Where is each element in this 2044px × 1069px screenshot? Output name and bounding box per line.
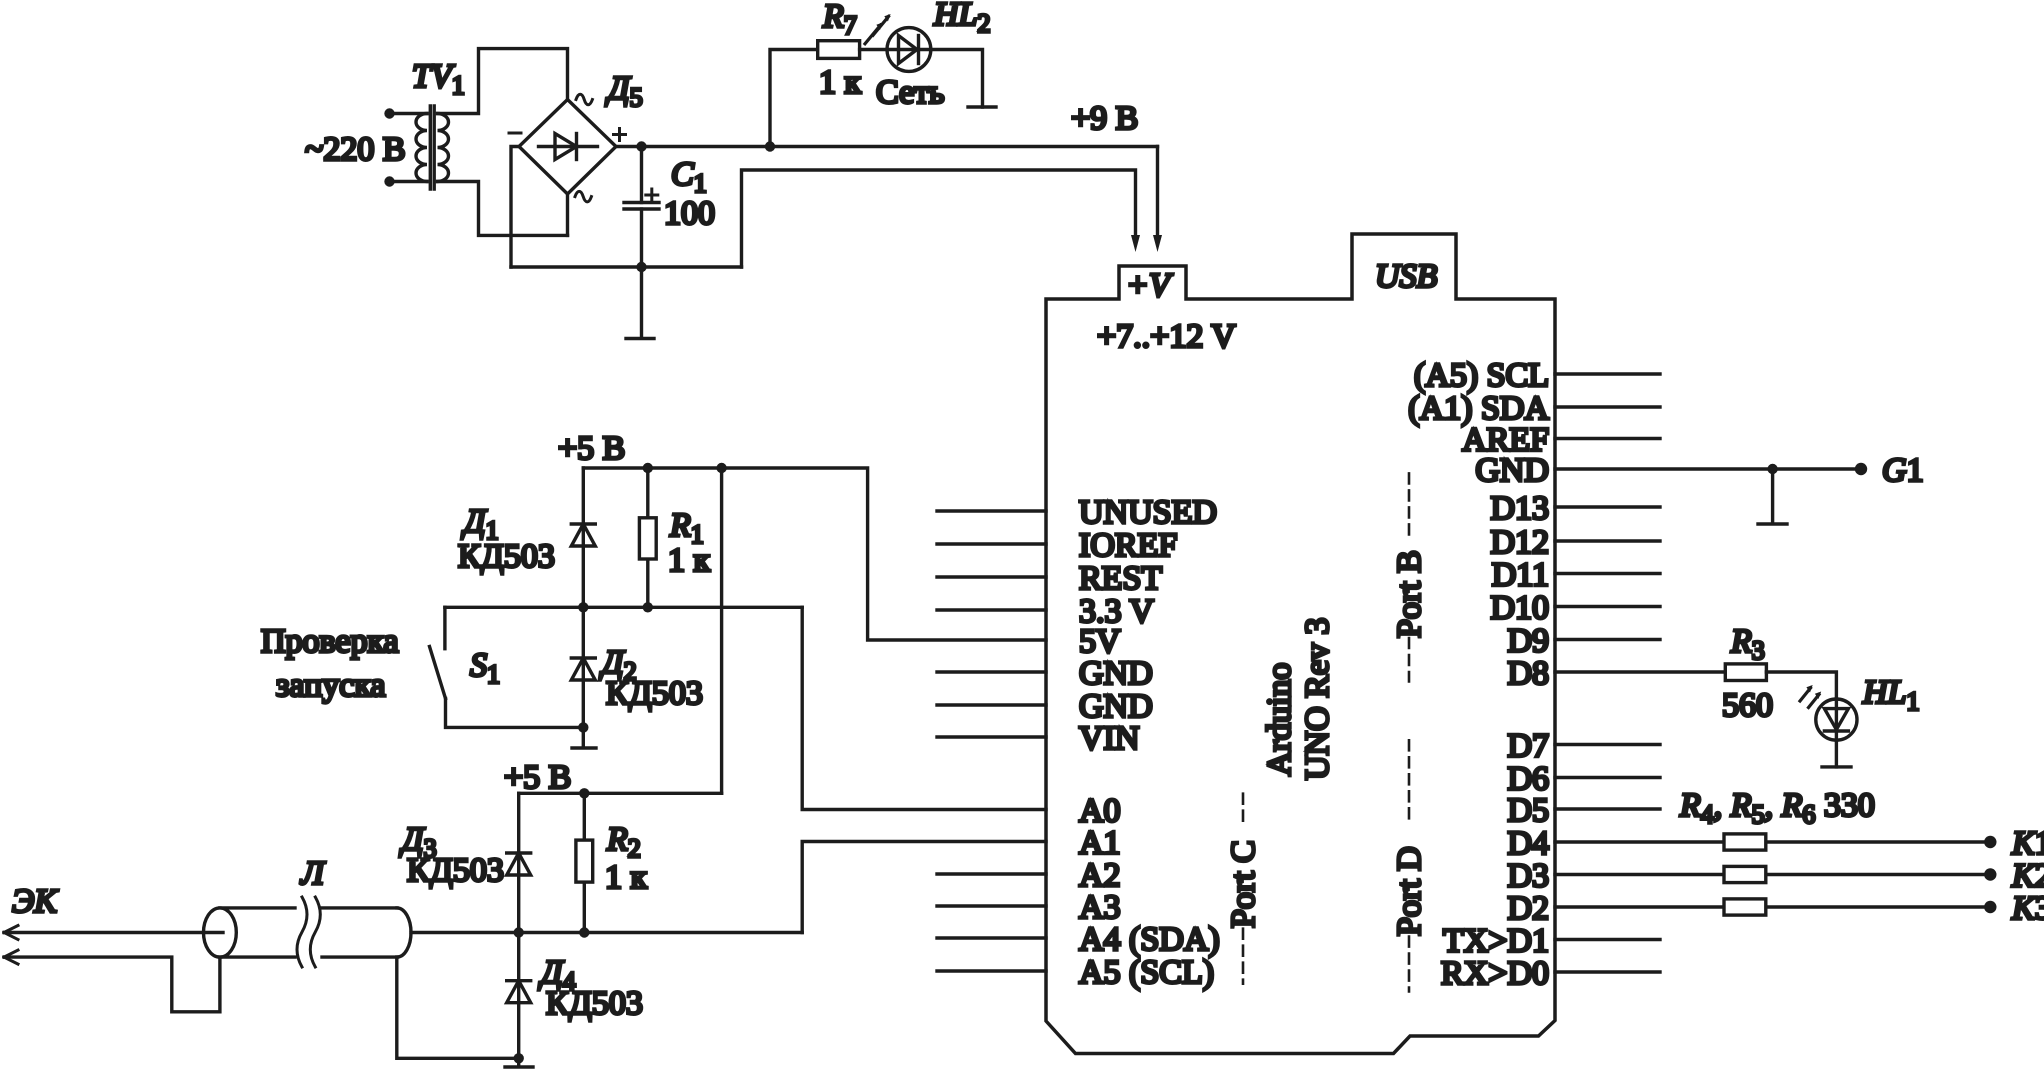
wire ЭК upper with arrow [4, 926, 223, 940]
wire line rail [411, 931, 802, 934]
svg-text:Сеть: Сеть [876, 74, 945, 111]
svg-text:D13: D13 [1490, 490, 1549, 527]
wire +9V drop arrow [1156, 147, 1159, 237]
svg-text:запуска: запуска [276, 667, 385, 704]
svg-text:Port D: Port D [1391, 846, 1428, 936]
svg-text:GND: GND [1475, 452, 1549, 489]
Port B dashed line and label [1391, 473, 1428, 681]
svg-text:UNO Rev 3: UNO Rev 3 [1299, 618, 1336, 780]
svg-text:REST: REST [1079, 560, 1162, 597]
wire riser to lower +5V rail [720, 468, 723, 793]
node R1 top [643, 463, 653, 473]
svg-text:+5 В: +5 В [504, 759, 571, 796]
node R2 top [579, 788, 589, 798]
wire D3 to K2 [1555, 873, 1984, 876]
svg-text:K3: K3 [2011, 890, 2044, 927]
wire ЭК lower with arrow [4, 950, 220, 1012]
LED HL2 [865, 14, 931, 71]
wire winding-bottom to bridge bottom [438, 182, 568, 236]
wire R3 to HL1 [1766, 672, 1836, 699]
node bridge output junction [636, 141, 646, 151]
svg-text:КД503: КД503 [606, 675, 703, 712]
svg-text:Arduino: Arduino [1261, 663, 1298, 776]
svg-text:Port B: Port B [1391, 550, 1428, 638]
svg-text:A1: A1 [1079, 825, 1121, 862]
diode Д1 [571, 468, 595, 607]
svg-text:КД503: КД503 [546, 985, 643, 1022]
node C1 bottom junction [636, 262, 646, 272]
wire rail to A0 [802, 607, 1046, 809]
svg-text:A5 (SCL): A5 (SCL) [1079, 954, 1214, 991]
ground [505, 1058, 533, 1067]
svg-text:IOREF: IOREF [1079, 527, 1177, 564]
svg-text:Проверка: Проверка [261, 623, 399, 660]
svg-text:D5: D5 [1507, 792, 1549, 829]
svg-text:VIN: VIN [1079, 720, 1139, 757]
LED HL1 [1800, 685, 1857, 740]
wire HL2 to ground [931, 50, 983, 108]
wire D8 to R3 [1555, 670, 1725, 673]
svg-text:D4: D4 [1507, 825, 1549, 862]
node Д1 bottom [578, 602, 588, 612]
right pin labels [1408, 357, 1549, 992]
svg-text:~220 В: ~220 В [305, 131, 406, 168]
left pin labels [1079, 494, 1220, 991]
svg-text:D11: D11 [1492, 557, 1549, 594]
wire GND to G1 [1555, 467, 1861, 470]
svg-text:ЭК: ЭК [12, 883, 59, 920]
svg-text:RX>D0: RX>D0 [1441, 955, 1549, 992]
resistor R7 [818, 41, 860, 59]
wire R7 branch riser [770, 50, 818, 147]
wire +5V rail lower [519, 792, 722, 795]
svg-text:КД503: КД503 [458, 538, 555, 575]
wire D2 to K3 [1555, 905, 1984, 908]
wire HL1 to ground [1835, 740, 1838, 767]
node K3 terminal [1984, 901, 1996, 913]
svg-text:K1: K1 [2011, 825, 2044, 862]
ground [1822, 765, 1851, 768]
ground [626, 267, 654, 339]
svg-text:КД503: КД503 [407, 852, 504, 889]
node K1 terminal [1984, 836, 1996, 848]
svg-text:D10: D10 [1490, 590, 1549, 627]
switch S1 [430, 607, 584, 727]
svg-text:A4 (SDA): A4 (SDA) [1079, 921, 1220, 958]
node ground tap [1767, 464, 1777, 474]
right pin stub wires [1555, 374, 1660, 972]
svg-text:Port C: Port C [1225, 840, 1262, 928]
left pin stub wires [937, 511, 1046, 971]
svg-text:D8: D8 [1507, 655, 1549, 692]
wire winding-top to bridge top [438, 49, 568, 114]
svg-text:1 к: 1 к [819, 64, 862, 101]
svg-text:G1: G1 [1882, 452, 1924, 489]
resistor R3 [1725, 664, 1766, 681]
cable Л [204, 897, 411, 967]
resistor R1 [639, 468, 656, 607]
ground [968, 105, 996, 108]
svg-text:+9 В: +9 В [1071, 100, 1138, 137]
svg-text:+7..+12 V: +7..+12 V [1097, 318, 1236, 355]
bridge rectifier Д5 [509, 94, 626, 202]
svg-text:K2: K2 [2011, 858, 2044, 895]
wire 0V rail [511, 265, 742, 268]
Port D dashed line and label [1391, 740, 1428, 991]
svg-text:UNUSED: UNUSED [1079, 494, 1217, 531]
wire R7 to HL2 [860, 48, 887, 51]
wire to A1 [802, 842, 1046, 933]
svg-text:100: 100 [664, 195, 715, 232]
svg-text:+V: +V [1126, 267, 1174, 304]
diode Д4 [507, 933, 531, 1059]
wire D4 to K1 [1555, 840, 1984, 843]
svg-text:(A5) SCL: (A5) SCL [1414, 357, 1549, 394]
svg-text:D3: D3 [1507, 858, 1549, 895]
svg-text:+5 В: +5 В [558, 430, 625, 467]
svg-text:1 к: 1 к [605, 859, 648, 896]
resistor R2 [576, 793, 593, 932]
node S1/Д2 bottom [578, 722, 588, 732]
node R7 branch junction [765, 141, 775, 151]
svg-text:1 к: 1 к [668, 542, 711, 579]
svg-text:560: 560 [1722, 687, 1773, 724]
node riser top [716, 463, 726, 473]
svg-text:D2: D2 [1507, 890, 1549, 927]
capacitor C1 [624, 147, 659, 268]
wire Д1/R1/S1 rail [445, 606, 802, 609]
node R2 bottom [579, 927, 589, 937]
svg-text:D9: D9 [1507, 623, 1549, 660]
ground [1758, 469, 1787, 524]
transformer TV1 [384, 106, 448, 189]
wire bridge bottom vertex stub [566, 194, 569, 235]
resistor R5 [1724, 866, 1766, 882]
node R1 bottom [643, 602, 653, 612]
Port C dashed line and label [1225, 794, 1262, 984]
wire +5V rail upper [583, 468, 1046, 640]
node Д3/Д4 junction [514, 927, 524, 937]
svg-text:D7: D7 [1507, 728, 1549, 765]
Arduino UNO body U1 [1046, 234, 1555, 1054]
resistor R4 [1724, 834, 1766, 850]
diode Д3 [507, 793, 531, 932]
svg-text:GND: GND [1079, 655, 1153, 692]
resistor R6 [1724, 899, 1766, 915]
wire 0V feed to +V [742, 170, 1136, 267]
wire cable shield to Д4 bottom [397, 957, 519, 1058]
svg-text:Л: Л [300, 855, 326, 892]
node G1 terminal [1855, 463, 1867, 475]
ground [572, 727, 596, 748]
node Д4 bottom [514, 1053, 524, 1063]
diode Д2 [571, 607, 595, 727]
svg-text:TX>D1: TX>D1 [1443, 923, 1549, 960]
wire bridge left vertex to 0V rail [511, 147, 519, 268]
node K2 terminal [1984, 868, 1996, 880]
wire +9V rail [616, 145, 1158, 148]
svg-text:D12: D12 [1490, 524, 1549, 561]
svg-text:USB: USB [1375, 258, 1438, 295]
